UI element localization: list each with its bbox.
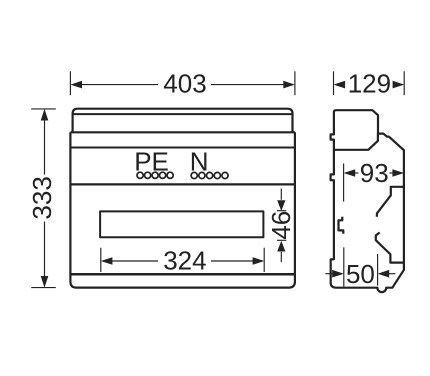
dimension 46 (277, 189, 286, 263)
side view: lid bottom inner line (334, 133, 378, 150)
side view: inner wall lower (seg2) (376, 233, 404, 263)
svg-text:333: 333 (27, 176, 57, 219)
front view: lid bottom step line (70, 131, 295, 133)
front view: lid outline (73, 109, 293, 133)
dimension 403 (70, 71, 295, 95)
dimension 50 (326, 247, 396, 286)
dimension 333 (31, 109, 56, 288)
svg-text:324: 324 (163, 246, 206, 276)
svg-text:93: 93 (360, 158, 389, 188)
front view: slot cutout (100, 211, 263, 237)
N terminal circles (191, 172, 228, 178)
svg-text:N: N (190, 146, 209, 176)
dimension 324 (101, 248, 264, 272)
side view: inner wall upper (seg1) (377, 187, 404, 217)
dimension 129 (334, 71, 405, 95)
side view: outer profile (331, 110, 404, 292)
front view: lid inner top line (73, 113, 293, 115)
svg-text:50: 50 (346, 259, 375, 289)
front view: terminal strip bottom line (70, 183, 295, 185)
svg-text:46: 46 (266, 211, 296, 240)
svg-text:403: 403 (163, 68, 206, 98)
front view: bottom seam line (70, 273, 295, 276)
front view: terminal strip top line (70, 146, 295, 148)
PE terminal circles (137, 172, 173, 178)
dimension 93 (344, 164, 393, 202)
svg-text:129: 129 (348, 68, 391, 98)
side view: clip detail (339, 217, 344, 234)
front view: body outline (70, 132, 295, 287)
